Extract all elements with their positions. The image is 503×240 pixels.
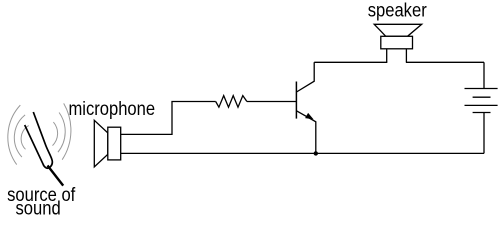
wire mic top to resistor xyxy=(121,102,216,135)
tuning fork handle xyxy=(48,166,64,186)
tuning fork xyxy=(25,112,53,168)
wire bottom rail xyxy=(121,152,484,154)
sound waves right xyxy=(53,103,71,159)
wire top rail left segment xyxy=(314,61,387,63)
transistor Q1 xyxy=(296,62,315,153)
wire top rail right segment xyxy=(406,61,484,63)
svg-text:microphone: microphone xyxy=(68,98,155,119)
battery B1 xyxy=(465,89,498,113)
sound waves left xyxy=(8,105,29,165)
speaker xyxy=(374,24,422,62)
microphone xyxy=(94,120,120,167)
svg-text:speaker: speaker xyxy=(368,0,427,21)
resistor R1 xyxy=(216,96,247,108)
wire right vertical to battery xyxy=(483,62,485,88)
wire battery to bottom rail xyxy=(483,113,485,154)
wire resistor to base xyxy=(247,101,297,103)
node junction dot xyxy=(314,151,318,155)
svg-text:sound: sound xyxy=(15,197,60,218)
